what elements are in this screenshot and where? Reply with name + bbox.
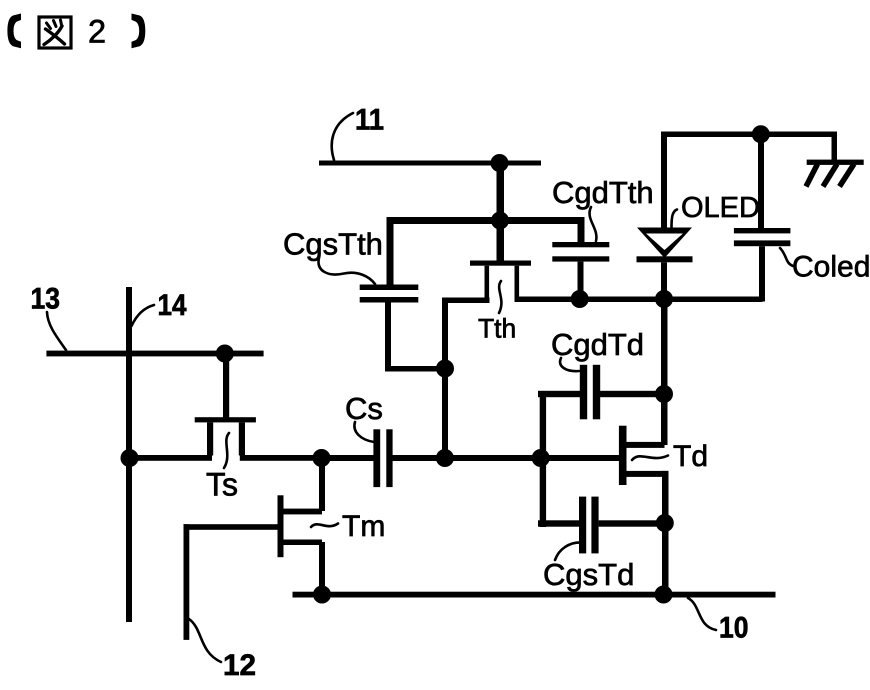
figure title bracket left 【	[7, 14, 21, 49]
svg-text:Cs: Cs	[345, 391, 383, 426]
transistor Tth	[470, 261, 531, 301]
svg-text:10: 10	[719, 612, 749, 645]
capacitor CgdTth bottom lead	[578, 262, 584, 298]
label 14 leader	[132, 305, 155, 326]
transistor Td	[619, 426, 669, 485]
junction dot Tm source/wire10	[313, 586, 331, 604]
svg-text:Ts: Ts	[206, 467, 238, 503]
wire node y220 horizontal	[387, 217, 585, 224]
label CgsTd leader	[555, 542, 582, 560]
label OLED leader	[672, 210, 678, 229]
ground symbol	[806, 160, 864, 187]
transistor Ts	[195, 417, 256, 455]
junction dot gate node	[491, 212, 509, 230]
wire node y458 left segment	[321, 455, 374, 461]
svg-text:CgdTd: CgdTd	[551, 327, 644, 362]
capacitor Coled	[734, 228, 791, 246]
label Td leader	[632, 456, 668, 461]
wire 14 (scan line vertical)	[126, 287, 132, 622]
junction dot bracket/node	[532, 449, 550, 467]
wire 13 (horizontal line)	[46, 351, 263, 357]
label 11 leader	[332, 113, 353, 160]
wire Tth drain horizontal (node y299)	[515, 297, 763, 303]
wire Tm source vertical	[319, 542, 325, 595]
junction dot CgdTth bottom	[571, 290, 589, 308]
wire CgsTd left horizontal	[538, 520, 580, 526]
wire Ts gate lead	[223, 354, 229, 418]
label Cs leader	[354, 422, 374, 442]
label Tth leader	[499, 281, 501, 313]
capacitor CgdTd	[580, 365, 600, 420]
wire top (to ground)	[661, 132, 837, 138]
label CgdTd leader	[560, 358, 579, 371]
svg-text:CgsTd: CgsTd	[543, 557, 634, 592]
wire gate bracket vertical	[540, 392, 546, 527]
junction dot wire14/Ts source	[121, 449, 139, 467]
wire Td drain vertical	[661, 297, 668, 445]
svg-text:Td: Td	[673, 440, 708, 473]
capacitor Coled bottom lead	[759, 246, 765, 301]
wire node y458 right segment	[392, 455, 619, 461]
junction dot wire11/gate	[491, 154, 509, 172]
capacitor Coled top lead	[758, 134, 764, 228]
svg-text:2: 2	[88, 14, 106, 50]
wire Ts source horizontal	[127, 455, 212, 461]
wire Ts drain horizontal	[240, 455, 324, 461]
label Coled leader	[780, 248, 793, 266]
svg-text:11: 11	[355, 104, 384, 137]
junction dot CgsTd right	[656, 514, 674, 532]
diode OLED	[637, 228, 693, 263]
label CgsTth leader	[319, 258, 375, 284]
label 12 leader	[189, 619, 221, 662]
wire 10 (bottom line)	[293, 592, 776, 598]
wire OLED anode vertical	[661, 132, 667, 238]
wire Tth source horizontal	[442, 298, 490, 304]
svg-text:CgsTth: CgsTth	[283, 227, 383, 262]
svg-text:Tth: Tth	[478, 314, 516, 344]
figure title kanji 図 box	[39, 17, 71, 48]
wire Tm drain vertical	[319, 458, 325, 511]
wire Tm gate lead	[184, 524, 278, 530]
capacitor CgsTd	[579, 497, 599, 554]
figure title bracket right 】	[132, 14, 146, 49]
junction dot Ts drain/node	[313, 449, 331, 467]
wire CgsTd right horizontal	[599, 520, 665, 526]
label Tm leader	[311, 524, 338, 528]
wire Td source vertical	[662, 471, 669, 598]
label Ts leader	[224, 433, 229, 468]
junction dot top wire / Coled	[752, 125, 770, 143]
capacitor CgdTth	[552, 242, 609, 262]
label 13 leader	[47, 312, 66, 350]
label CgdTth leader	[589, 207, 596, 241]
wire OLED cathode lead	[661, 262, 667, 301]
junction dot OLED cathode node	[655, 290, 673, 308]
svg-text:CgdTth: CgdTth	[552, 175, 654, 210]
capacitor Cs	[373, 429, 392, 487]
svg-text:Coled: Coled	[792, 251, 870, 284]
capacitor CgsTth bottom lead	[385, 303, 391, 367]
capacitor CgsTth	[360, 285, 419, 303]
junction dot Ts gate/wire13	[216, 345, 234, 363]
svg-text:14: 14	[158, 289, 187, 322]
wire CgsTth to node	[385, 366, 448, 372]
wire 12 vertical	[184, 524, 190, 640]
wire 11 (power supply line)	[319, 161, 541, 166]
junction dot Tth source/node	[436, 449, 454, 467]
junction dot CgdTd right	[655, 385, 673, 403]
junction dot CgsTth/node	[436, 360, 454, 378]
wire Tth source vertical	[442, 298, 448, 462]
junction dot Td source/wire10	[655, 586, 673, 604]
svg-text:Tm: Tm	[342, 510, 385, 543]
svg-text:12: 12	[223, 649, 256, 682]
label 10 leader	[688, 598, 716, 630]
capacitor CgdTth top lead	[578, 220, 585, 243]
wire CgdTd left horizontal	[538, 391, 580, 397]
capacitor CgsTth top lead	[387, 220, 394, 285]
svg-text:OLED: OLED	[681, 192, 760, 224]
wire CgdTd right horizontal	[599, 391, 662, 397]
svg-text:13: 13	[31, 283, 61, 316]
wire Tth gate vertical	[497, 163, 505, 262]
wire ground corner vertical	[832, 132, 838, 163]
transistor Tm	[278, 495, 323, 557]
